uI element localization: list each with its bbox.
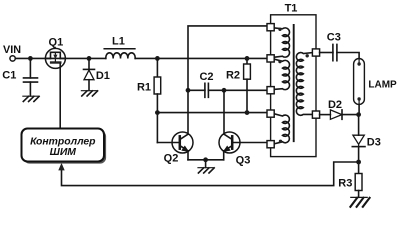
svg-text:Контроллер: Контроллер <box>30 136 96 147</box>
capacitor C2 <box>205 83 209 97</box>
svg-text:C2: C2 <box>199 71 213 83</box>
wire Q2 collector to transformer T1a <box>188 26 267 134</box>
wire C2 net to transformer T3 <box>224 89 267 91</box>
wire D1 top lead <box>88 58 90 69</box>
wire emitter to ground <box>205 160 207 168</box>
transistor Q2 <box>172 132 193 153</box>
resistor R2 <box>244 58 251 112</box>
diode D2 <box>330 110 342 119</box>
wire T7 to D2 <box>320 114 331 116</box>
wire main rail L1 to transformer T2 <box>135 57 267 59</box>
svg-text:Q1: Q1 <box>49 36 64 48</box>
transformer T1 core <box>293 25 295 141</box>
node junction D1 <box>87 56 92 61</box>
transformer T1 frame <box>271 15 316 157</box>
svg-text:R2: R2 <box>226 70 240 82</box>
wire common emitter rail <box>188 159 224 161</box>
wire Q3 collector <box>223 90 225 134</box>
svg-text:Q2: Q2 <box>164 153 179 165</box>
terminal T3 <box>267 87 274 94</box>
svg-text:Q3: Q3 <box>236 154 251 166</box>
terminal T5 <box>267 141 274 148</box>
ground under C1 <box>23 96 39 101</box>
terminal T4 <box>267 110 274 117</box>
wire C2 left lead <box>188 89 205 91</box>
svg-text:D3: D3 <box>367 137 381 149</box>
ground under D1 <box>81 91 97 96</box>
node junction C2 left / Q2 collector <box>186 88 191 93</box>
svg-text:D2: D2 <box>328 99 342 111</box>
terminal T6 secondary top <box>312 49 319 56</box>
diode D3 <box>352 135 365 146</box>
transistor Q3 <box>219 132 240 153</box>
terminal T7 secondary bottom <box>312 111 319 118</box>
node junction R1 bias line <box>155 110 160 115</box>
wire C1 top lead <box>29 58 31 78</box>
node junction R2 bottom <box>245 110 250 115</box>
wire feedback from R3 node to controller <box>62 162 359 186</box>
wire C1 bottom lead <box>29 82 31 96</box>
svg-text:VIN: VIN <box>3 44 21 56</box>
terminal T2 <box>267 55 274 62</box>
PWM controller box shadow <box>24 131 107 164</box>
node junction C2 right / Q3 collector <box>222 88 227 93</box>
node VIN terminal <box>10 56 15 61</box>
svg-text:R1: R1 <box>137 81 151 93</box>
terminal T1a <box>267 24 274 31</box>
capacitor C3 <box>333 44 337 60</box>
node junction R1 top <box>155 56 160 61</box>
svg-text:T1: T1 <box>285 3 298 15</box>
node junction D3/R3/feedback <box>356 160 361 165</box>
wire Q3 base to transformer T5 <box>232 142 267 144</box>
node junction lamp/D2/D3 <box>356 112 361 117</box>
wire C3 to lamp top <box>337 53 359 59</box>
wire Q1 gate to PWM controller <box>59 64 61 129</box>
svg-text:C3: C3 <box>327 32 341 44</box>
svg-text:D1: D1 <box>96 70 110 82</box>
wire T6 to C3 <box>320 52 333 54</box>
winding feedback section <box>274 114 289 144</box>
svg-text:R3: R3 <box>338 177 352 189</box>
wire lamp bottom to D2 node <box>358 105 360 115</box>
diode D1 <box>84 69 95 79</box>
node junction R2 top <box>245 56 250 61</box>
svg-text:C1: C1 <box>2 70 16 82</box>
node junction emitters <box>203 157 208 162</box>
PWM controller U1 <box>22 129 105 162</box>
transistor Q1 (P-MOSFET) <box>45 48 65 68</box>
inductor L1 <box>104 49 135 59</box>
wire Q3 emitter drop <box>223 151 225 160</box>
resistor R1 <box>154 58 161 142</box>
svg-text:L1: L1 <box>112 36 125 48</box>
wire Q1 drain to L1 <box>60 57 106 59</box>
wire node to D3 <box>358 115 360 136</box>
ground under Q2 Q3 <box>198 168 214 173</box>
wire C2 right lead <box>208 89 224 91</box>
winding primary section 1 <box>274 28 289 58</box>
node junction C1/VIN <box>28 56 33 61</box>
wire D2 to node <box>342 114 359 116</box>
wire D1 bottom lead <box>88 80 90 91</box>
winding secondary <box>296 53 312 116</box>
wire D3 to R3 node <box>358 147 360 174</box>
arrow feedback into controller <box>58 163 64 171</box>
lamp tube <box>354 59 365 105</box>
capacitor C1 <box>24 78 38 82</box>
resistor R3 <box>355 174 362 198</box>
svg-text:ШИМ: ШИМ <box>50 147 77 158</box>
wire Q2 base <box>157 142 179 144</box>
winding primary section 2 <box>274 59 289 89</box>
wire Q2 emitter drop <box>187 151 189 160</box>
ground under R3 <box>350 197 369 206</box>
wire base bias line to transformer T4 <box>157 112 267 114</box>
svg-text:LAMP: LAMP <box>368 79 397 90</box>
wire VIN to Q1 source <box>15 57 50 59</box>
